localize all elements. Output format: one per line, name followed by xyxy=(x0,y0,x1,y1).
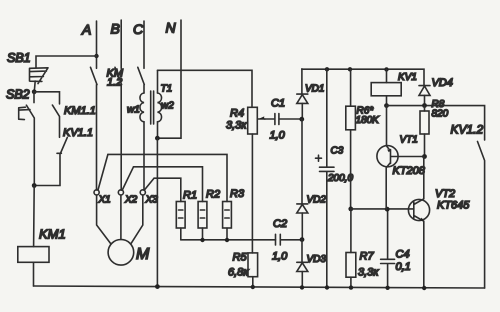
svg-text:X2: X2 xyxy=(124,195,138,206)
node C3 top xyxy=(325,67,329,71)
svg-text:VD3: VD3 xyxy=(307,254,327,265)
svg-text:3,3к: 3,3к xyxy=(358,267,379,279)
node rail T1 xyxy=(155,284,160,289)
svg-text:X1: X1 xyxy=(98,195,111,206)
svg-text:R2: R2 xyxy=(206,189,220,201)
node VD3 rail xyxy=(300,285,304,289)
wire X3 to R1 xyxy=(154,178,181,201)
svg-text:SB2: SB2 xyxy=(6,88,30,102)
svg-text:KT645: KT645 xyxy=(437,200,470,212)
svg-text:1.2: 1.2 xyxy=(107,77,122,89)
svg-text:R5: R5 xyxy=(233,252,248,264)
potentiometer R4 xyxy=(248,107,265,253)
transistor VT2 xyxy=(408,157,429,289)
motor M xyxy=(97,195,143,265)
svg-text:N: N xyxy=(166,20,177,36)
svg-text:VD4: VD4 xyxy=(432,77,453,89)
node C2/VD xyxy=(300,237,305,242)
capacitor C2 xyxy=(276,234,303,245)
node A dot xyxy=(94,54,98,58)
resistor R1 xyxy=(176,202,185,240)
svg-text:R7: R7 xyxy=(360,251,375,263)
svg-text:M: M xyxy=(136,246,150,263)
wire VD1 to VD2 xyxy=(301,119,303,204)
wire A to SB1 xyxy=(36,56,97,68)
node T1 common xyxy=(155,136,160,141)
transformer T1 secondary w2 xyxy=(158,70,162,138)
svg-text:C2: C2 xyxy=(273,218,287,230)
svg-text:SB1: SB1 xyxy=(7,51,31,65)
svg-text:KM1: KM1 xyxy=(39,227,66,242)
resistor R7 xyxy=(346,209,356,288)
transformer T1 primary w1 xyxy=(140,93,144,190)
diode VD4 xyxy=(419,86,430,106)
svg-text:C: C xyxy=(133,21,144,37)
svg-text:VD2: VD2 xyxy=(307,195,327,206)
node VD4/R8 xyxy=(422,103,427,108)
wire w2 top to R4 xyxy=(158,70,253,107)
svg-text:180K: 180K xyxy=(356,115,381,126)
svg-text:KV1: KV1 xyxy=(398,72,417,83)
svg-text:820: 820 xyxy=(432,109,449,120)
phase line N xyxy=(157,20,181,138)
terminal X1 xyxy=(94,154,108,195)
svg-text:VT2: VT2 xyxy=(435,188,455,200)
phase line A xyxy=(91,21,98,190)
node branch rejoin xyxy=(32,183,37,188)
wire KM1 to bottom rail xyxy=(33,262,35,286)
phase line C xyxy=(138,21,145,93)
node R6 top xyxy=(348,67,352,71)
terminal X3 xyxy=(140,178,154,195)
resistor R3 xyxy=(223,202,232,240)
wire SB2 to KM1 coil xyxy=(33,186,36,247)
wire dc mid rail xyxy=(387,106,485,140)
svg-text:VT1: VT1 xyxy=(400,135,418,146)
diode VD1 xyxy=(297,69,308,119)
node KV1 top xyxy=(384,67,388,71)
svg-text:X3: X3 xyxy=(145,195,159,206)
wire X1 to R3 xyxy=(108,154,227,201)
svg-text:KM1.1: KM1.1 xyxy=(64,105,96,117)
svg-text:A: A xyxy=(81,22,91,38)
svg-text:200,0: 200,0 xyxy=(327,173,353,184)
contact KM1.1 xyxy=(52,105,59,137)
svg-text:3,3к: 3,3к xyxy=(226,120,247,132)
node VT1 base / VT2 collector xyxy=(422,154,427,159)
capacitor C4 xyxy=(381,209,395,288)
resistor R2 xyxy=(198,202,207,240)
node R2 bottom xyxy=(200,238,204,242)
diode VD3 xyxy=(297,240,308,288)
terminal X2 xyxy=(118,167,133,195)
svg-text:KV1.1: KV1.1 xyxy=(63,127,93,139)
relay coil KV1 xyxy=(371,69,401,105)
top dc rail xyxy=(302,69,424,85)
node VT2 emitter rail xyxy=(422,286,426,290)
node R7 rail xyxy=(349,285,353,289)
resistor R8 xyxy=(420,106,429,157)
node C4 rail xyxy=(385,286,389,290)
svg-text:1,0: 1,0 xyxy=(272,251,288,263)
svg-text:6,8к: 6,8к xyxy=(228,267,249,279)
node R5 rail xyxy=(251,285,255,289)
wire to KM1.1 branch xyxy=(34,92,59,104)
wire T1 common down to rail xyxy=(156,138,158,286)
node C1/VD xyxy=(299,117,304,122)
svg-text:w2: w2 xyxy=(161,101,174,112)
node C4 top xyxy=(385,207,390,212)
resistor R6 xyxy=(346,69,356,209)
push-button SB2 xyxy=(19,92,35,186)
node R6/R7 xyxy=(348,207,353,212)
svg-text:KV1.2: KV1.2 xyxy=(451,123,484,137)
coil KM1 xyxy=(18,247,49,263)
svg-text:w1: w1 xyxy=(127,105,140,116)
wire base node xyxy=(351,208,414,210)
resistor R5 xyxy=(248,253,258,287)
svg-text:R4: R4 xyxy=(230,108,244,120)
svg-text:R1: R1 xyxy=(183,190,197,202)
transistor VT1 xyxy=(377,106,425,210)
bottom rail xyxy=(34,286,485,288)
svg-text:1,0: 1,0 xyxy=(270,130,286,142)
transformer core xyxy=(151,91,154,124)
wire X2 to R2 xyxy=(134,167,203,202)
phase line B xyxy=(115,20,122,190)
svg-text:C3: C3 xyxy=(331,146,344,157)
node R3 bottom xyxy=(225,238,229,242)
svg-text:C4: C4 xyxy=(396,249,410,261)
node C3 rail xyxy=(325,285,329,289)
node SB2 junction xyxy=(32,89,37,94)
wire resistor bottoms to C2 xyxy=(181,239,276,241)
contact KV1.1 xyxy=(34,137,67,185)
svg-text:KT208: KT208 xyxy=(393,165,426,177)
svg-text:T1: T1 xyxy=(161,84,173,95)
svg-text:B: B xyxy=(111,21,120,37)
svg-text:C1: C1 xyxy=(271,98,285,110)
svg-text:VD1: VD1 xyxy=(305,84,324,95)
capacitor C1 xyxy=(265,114,302,125)
svg-text:R3: R3 xyxy=(230,188,245,200)
node KV1 bottom xyxy=(384,103,389,108)
capacitor C3 xyxy=(316,69,335,287)
diode VD2 xyxy=(297,204,308,240)
svg-text:0,1: 0,1 xyxy=(396,261,411,273)
push-button SB1 xyxy=(30,68,49,92)
contact KV1.2 xyxy=(478,142,485,289)
